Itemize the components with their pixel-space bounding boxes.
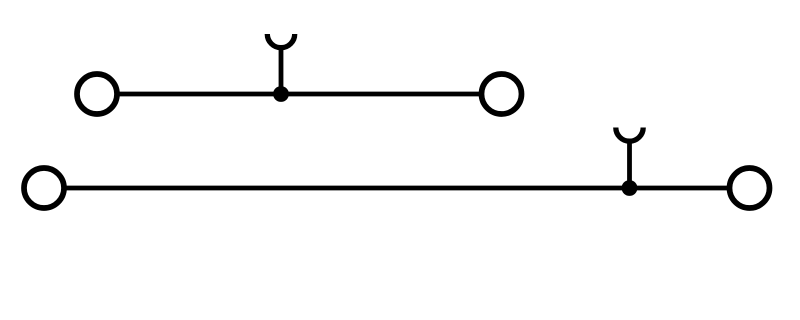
- wire (bottom level): [67, 186, 728, 191]
- wire stem (bottom tap): [627, 140, 632, 188]
- terminal circle (top level, right): [482, 74, 522, 114]
- junction dot (top tap, node): [273, 86, 289, 102]
- terminal circle (top level, left): [77, 74, 117, 114]
- junction dot (bottom tap, node): [622, 180, 638, 196]
- test socket arc (top tap): [267, 34, 294, 48]
- terminal circle (bottom level, right): [730, 168, 770, 208]
- wire (top level): [120, 92, 480, 97]
- test socket arc (bottom tap): [616, 128, 643, 142]
- wire stem (top tap): [279, 47, 284, 95]
- terminal circle (bottom level, left): [24, 168, 64, 208]
